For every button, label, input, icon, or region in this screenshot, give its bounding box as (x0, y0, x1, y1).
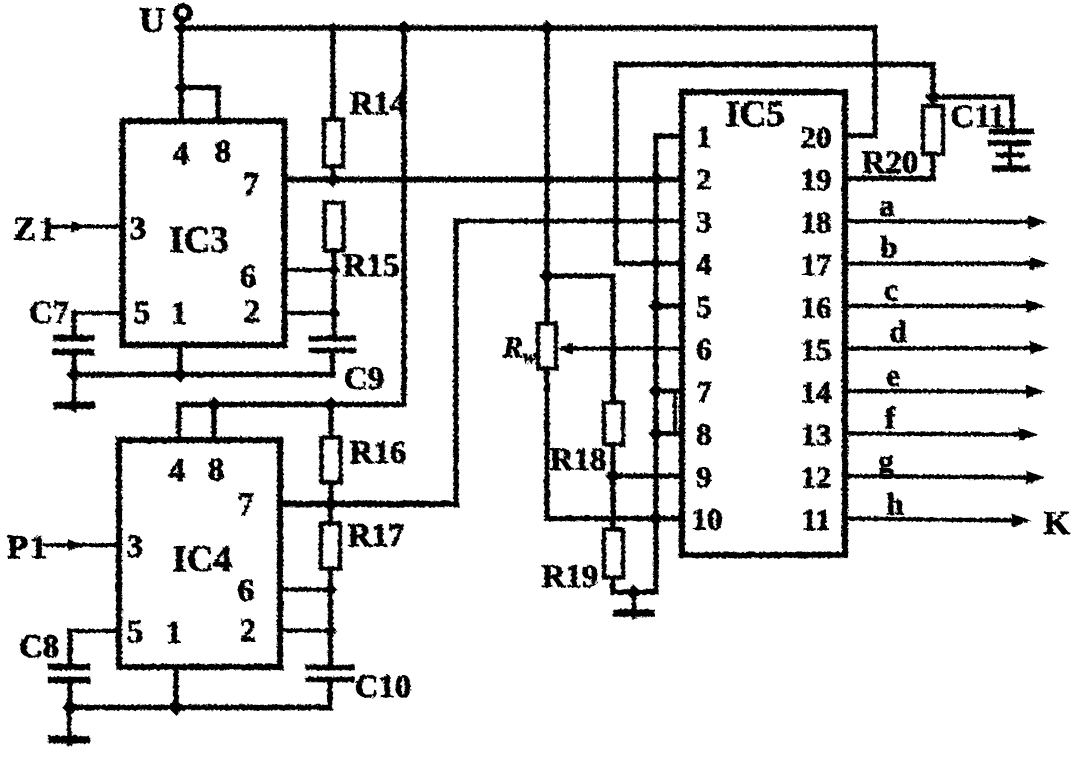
svg-text:C11: C11 (950, 99, 1005, 135)
svg-text:K: K (1044, 505, 1071, 542)
svg-text:12: 12 (801, 460, 832, 495)
svg-text:5: 5 (134, 295, 151, 331)
svg-text:6: 6 (240, 259, 257, 295)
svg-text:1: 1 (171, 296, 188, 332)
svg-text:R14: R14 (350, 86, 407, 122)
svg-text:11: 11 (801, 502, 830, 537)
svg-text:d: d (889, 314, 906, 349)
svg-text:h: h (886, 487, 903, 522)
svg-text:R15: R15 (343, 248, 400, 284)
svg-text:2: 2 (244, 294, 261, 330)
svg-text:10: 10 (692, 502, 723, 537)
svg-text:C9: C9 (344, 361, 384, 397)
svg-text:b: b (880, 230, 897, 265)
svg-text:4: 4 (696, 247, 712, 282)
svg-text:R17: R17 (348, 518, 405, 554)
svg-text:2: 2 (240, 613, 257, 649)
svg-text:4: 4 (173, 136, 190, 172)
svg-text:7: 7 (238, 487, 255, 523)
svg-text:3: 3 (127, 529, 144, 565)
svg-text:4: 4 (169, 453, 186, 489)
svg-text:f: f (885, 401, 896, 436)
svg-text:5: 5 (127, 614, 144, 650)
svg-text:5: 5 (696, 289, 712, 324)
svg-text:Z1: Z1 (13, 211, 59, 248)
svg-text:e: e (886, 358, 900, 393)
svg-text:2: 2 (696, 162, 712, 197)
svg-text:15: 15 (801, 332, 832, 367)
svg-text:IC3: IC3 (169, 220, 229, 261)
svg-text:20: 20 (801, 120, 832, 155)
svg-text:13: 13 (801, 417, 832, 452)
svg-text:1: 1 (166, 615, 183, 651)
svg-text:9: 9 (696, 459, 712, 494)
svg-text:19: 19 (801, 162, 832, 197)
svg-text:R19: R19 (542, 559, 599, 595)
svg-text:14: 14 (801, 375, 832, 410)
svg-text:P1: P1 (7, 529, 49, 566)
svg-text:17: 17 (801, 247, 832, 282)
svg-text:IC5: IC5 (725, 94, 785, 135)
svg-text:C10: C10 (355, 669, 412, 705)
svg-text:6: 6 (238, 573, 255, 609)
svg-text:18: 18 (801, 205, 832, 240)
svg-text:g: g (878, 444, 894, 479)
svg-text:6: 6 (696, 332, 712, 367)
svg-text:R16: R16 (350, 435, 407, 471)
svg-text:7: 7 (696, 374, 712, 409)
svg-text:R20: R20 (862, 145, 919, 181)
svg-text:3: 3 (696, 204, 712, 239)
svg-text:7: 7 (243, 167, 260, 203)
svg-text:U: U (139, 0, 165, 40)
svg-text:3: 3 (130, 211, 147, 247)
svg-text:C8: C8 (19, 629, 59, 665)
svg-text:R18: R18 (550, 442, 607, 478)
svg-text:16: 16 (801, 290, 832, 325)
svg-text:8: 8 (696, 417, 712, 452)
svg-text:C7: C7 (29, 295, 69, 331)
svg-text:a: a (879, 188, 895, 223)
svg-text:1: 1 (696, 119, 712, 154)
svg-text:c: c (884, 272, 898, 307)
svg-text:8: 8 (215, 134, 232, 170)
svg-text:IC4: IC4 (172, 539, 232, 580)
svg-text:8: 8 (208, 452, 225, 488)
